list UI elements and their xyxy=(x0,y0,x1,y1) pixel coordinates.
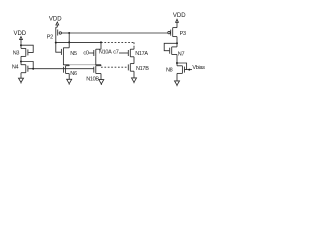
label N5 xyxy=(70,51,77,57)
wire N4 source down xyxy=(20,73,22,76)
svg-text:N17B: N17B xyxy=(136,66,149,72)
wire mirror line P2 gate to P3 gate xyxy=(69,32,168,34)
label N10A xyxy=(99,50,112,56)
label P2 xyxy=(47,34,53,40)
faint wire mid nodes xyxy=(69,64,101,66)
ground N10B xyxy=(99,74,104,86)
svg-text:VDD: VDD xyxy=(49,17,62,23)
svg-text:VDD: VDD xyxy=(173,13,186,19)
wire VDD to N3 xyxy=(20,44,22,49)
label N8 xyxy=(166,68,173,74)
VDD label left xyxy=(13,31,26,37)
label N17A xyxy=(135,51,148,57)
node N8 drain xyxy=(176,62,178,64)
transistor P2 (diode-connected PMOS) xyxy=(56,27,69,42)
node bus at N5 drain xyxy=(68,41,70,43)
label Vbias xyxy=(192,65,205,71)
node P2 drain / bus xyxy=(55,42,57,44)
wire N3 source to N4 drain xyxy=(20,56,22,61)
wire N7 source to N8 drain xyxy=(176,55,178,66)
label N17B xyxy=(136,66,149,72)
node N4 gate bus junction xyxy=(32,68,34,70)
dashed wire to N17A drain xyxy=(101,41,134,43)
node Vbias xyxy=(188,69,190,71)
svg-text:N10B: N10B xyxy=(86,77,99,83)
transistor N4 (diode-connected) xyxy=(21,62,33,73)
wire N8 source down xyxy=(176,73,178,81)
wire N17A source to N17B drain xyxy=(133,57,135,64)
ground left xyxy=(19,76,24,84)
label net c0 xyxy=(83,50,88,56)
svg-text:P3: P3 xyxy=(180,31,186,37)
ground N6 xyxy=(67,74,72,85)
VDD label middle xyxy=(49,17,62,23)
transistor N10A xyxy=(94,42,101,56)
ground N8 xyxy=(175,81,180,86)
wire Vbias lead xyxy=(187,69,192,71)
node P2 gate / mirror line xyxy=(68,32,70,34)
label N7 xyxy=(178,51,185,57)
svg-text:N3: N3 xyxy=(13,50,20,56)
node N3/N4 junction xyxy=(20,61,22,63)
VDD label right xyxy=(173,13,186,19)
transistor N10B xyxy=(94,65,101,74)
transistor N8 (diode-connected) xyxy=(177,63,187,73)
label N6 xyxy=(70,71,77,77)
label net c7 xyxy=(113,50,118,56)
wire P2 gate down to drain bus xyxy=(68,33,70,48)
node P3 drain xyxy=(176,42,178,44)
transistor N6 xyxy=(64,65,70,74)
wire N10A source to N10B drain xyxy=(96,57,101,65)
VDD arrow left xyxy=(20,37,23,44)
svg-text:VDD: VDD xyxy=(13,31,26,37)
svg-text:N17A: N17A xyxy=(135,51,148,57)
transistor N5 xyxy=(56,42,69,64)
label N10B xyxy=(86,77,99,83)
label N4 xyxy=(12,64,19,70)
dashed wire N10B to N17B gate xyxy=(101,66,128,68)
wire bus N4 gate to N6/N10B gates xyxy=(33,68,94,70)
svg-text:Vbias: Vbias xyxy=(192,65,205,71)
transistor N17A xyxy=(128,47,134,57)
svg-text:N5: N5 xyxy=(70,51,77,57)
svg-text:N4: N4 xyxy=(12,64,19,70)
svg-text:P2: P2 xyxy=(47,34,53,40)
wire c0 lead to N10A gate xyxy=(89,52,94,54)
transistor N17B xyxy=(128,64,134,72)
svg-text:N7: N7 xyxy=(178,51,185,57)
transistor N7 (diode-connected) xyxy=(164,43,177,54)
transistor P3 (PMOS) xyxy=(168,28,177,44)
VDD arrow right xyxy=(176,19,179,27)
label P3 xyxy=(180,31,186,37)
ground N17B xyxy=(132,71,137,83)
svg-text:N8: N8 xyxy=(166,68,173,74)
svg-text:c0: c0 xyxy=(83,50,88,56)
svg-text:c7: c7 xyxy=(113,50,118,56)
VDD arrow middle xyxy=(56,22,59,27)
wire bias bus P2 drain to N10A drain xyxy=(56,41,101,43)
wire c7 lead to N17A gate xyxy=(119,52,128,54)
svg-text:N10A: N10A xyxy=(99,50,112,56)
svg-text:N6: N6 xyxy=(70,71,77,77)
node N10A drain xyxy=(100,41,102,43)
node N3 drain xyxy=(20,44,22,46)
label N3 xyxy=(13,50,20,56)
transistor N3 (diode-connected) xyxy=(21,45,33,56)
